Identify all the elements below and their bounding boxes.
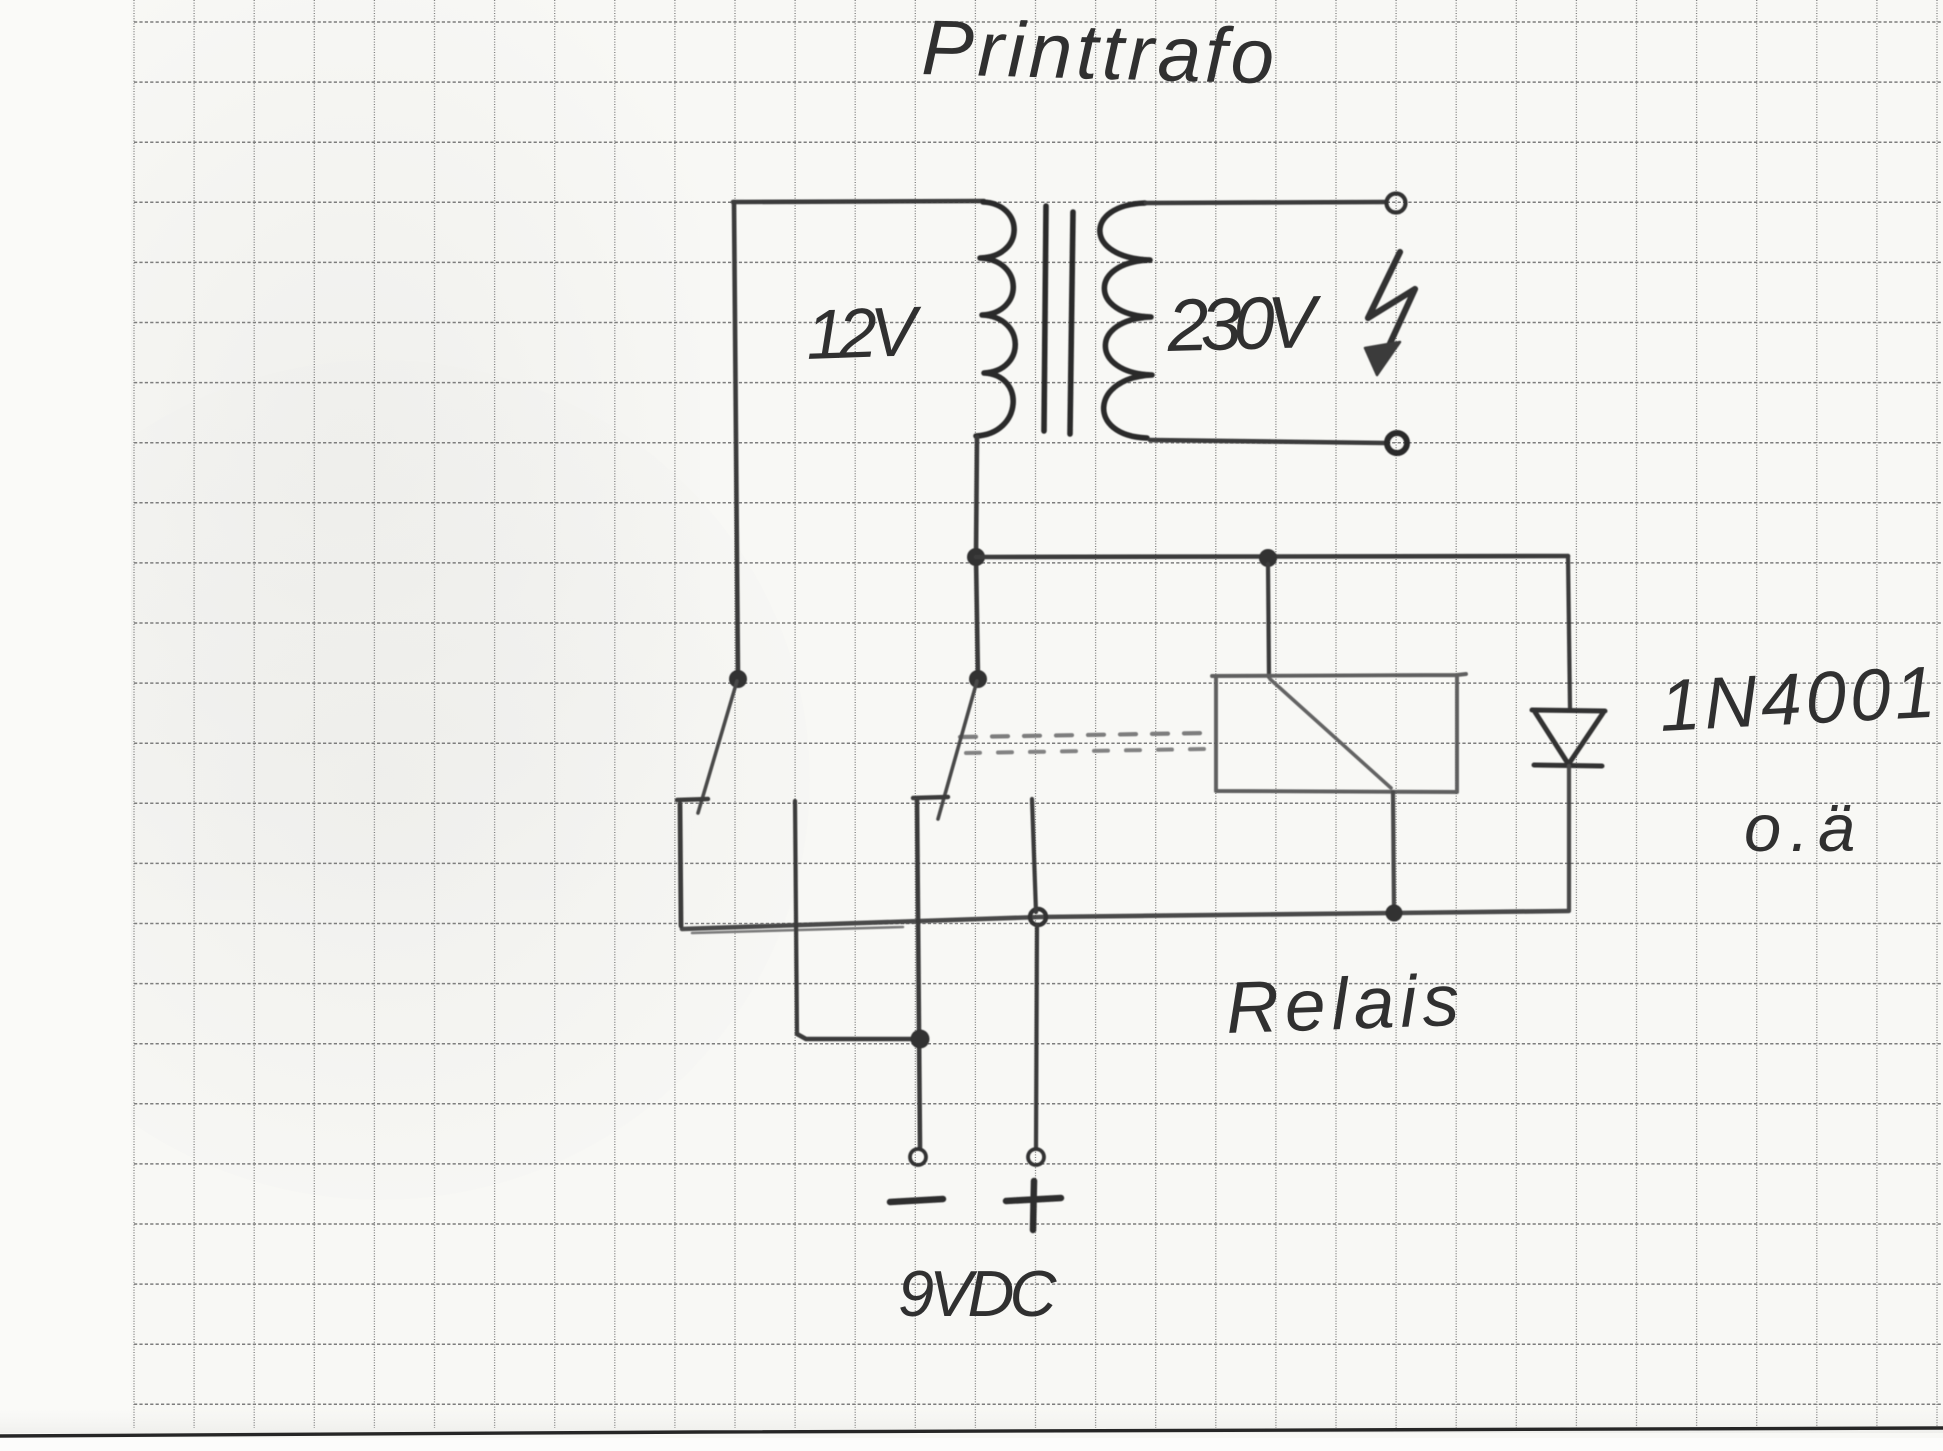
relay K1 diagonal <box>1270 679 1391 788</box>
node: relay coil junction <box>1259 549 1277 567</box>
terminal: 230V top <box>1387 194 1406 213</box>
node: bus left junction <box>967 548 985 566</box>
svg-text:230V: 230V <box>1165 280 1324 367</box>
svg-text:Relais: Relais <box>1225 960 1467 1049</box>
wire: diode bottom branch <box>1567 766 1571 911</box>
transformer T1 core <box>1044 206 1046 431</box>
transformer T1 primary winding 12V <box>976 202 1015 436</box>
terminal: plus <box>1028 1149 1044 1165</box>
wire: top bus <box>976 556 1568 557</box>
lightning bolt hazard arrow <box>1368 252 1415 350</box>
wire: diode top branch <box>1568 556 1570 709</box>
switch S1 contact tick <box>677 799 708 800</box>
wire: relay bottom drop <box>1393 792 1394 912</box>
wire: bottom bus <box>682 911 1568 929</box>
svg-text:o.ä: o.ä <box>1744 791 1864 866</box>
node: minus branch junction <box>911 1030 930 1049</box>
wire: bottom bus double stroke <box>692 927 903 933</box>
svg-text:12V: 12V <box>805 292 925 374</box>
switch S2 hinge node <box>969 670 987 688</box>
wire: S2 NO contact drop <box>1032 799 1036 912</box>
switch S2 contact tick <box>913 797 948 798</box>
transformer T1 secondary winding 230V <box>1100 203 1152 438</box>
wire: top horizontal to primary <box>733 201 984 202</box>
wire: 230V top lead <box>1146 202 1385 203</box>
relay K1 coil box <box>1212 674 1466 792</box>
switch S2 arm <box>938 681 977 819</box>
switch S1 arm <box>698 681 737 813</box>
wire: relay coil drop <box>1268 564 1269 677</box>
svg-text:1N4001: 1N4001 <box>1658 651 1942 747</box>
terminal: 230V bottom <box>1387 433 1407 453</box>
wire: 12V bottom drop <box>976 437 978 679</box>
diode D1 1N4001 <box>1532 710 1605 711</box>
node: plus branch ring junction <box>1030 909 1046 925</box>
svg-text:9VDC: 9VDC <box>898 1257 1057 1330</box>
switch S1 hinge node <box>729 670 747 688</box>
wire: left vertical from 12V top <box>734 202 738 679</box>
minus sign <box>890 1199 943 1202</box>
plus sign <box>1006 1181 1061 1230</box>
svg-text:Printtrafo: Printtrafo <box>921 3 1280 100</box>
mechanical linkage dashed row 2 <box>966 749 1204 753</box>
wire: elbow to minus branch <box>797 1034 918 1039</box>
wire: plus drop <box>1036 925 1037 1148</box>
wire: S2 contact drop to minus <box>917 799 920 1148</box>
terminal: minus <box>910 1149 926 1165</box>
wire: S1 NO contact drop <box>795 801 797 1034</box>
mechanical linkage dashed row 1 <box>960 733 1208 737</box>
wire: 230V bottom lead <box>1150 440 1385 443</box>
wire: S1 contact drop <box>680 804 681 926</box>
node: relay return junction <box>1386 905 1403 922</box>
paper bottom edge <box>0 1428 1943 1436</box>
